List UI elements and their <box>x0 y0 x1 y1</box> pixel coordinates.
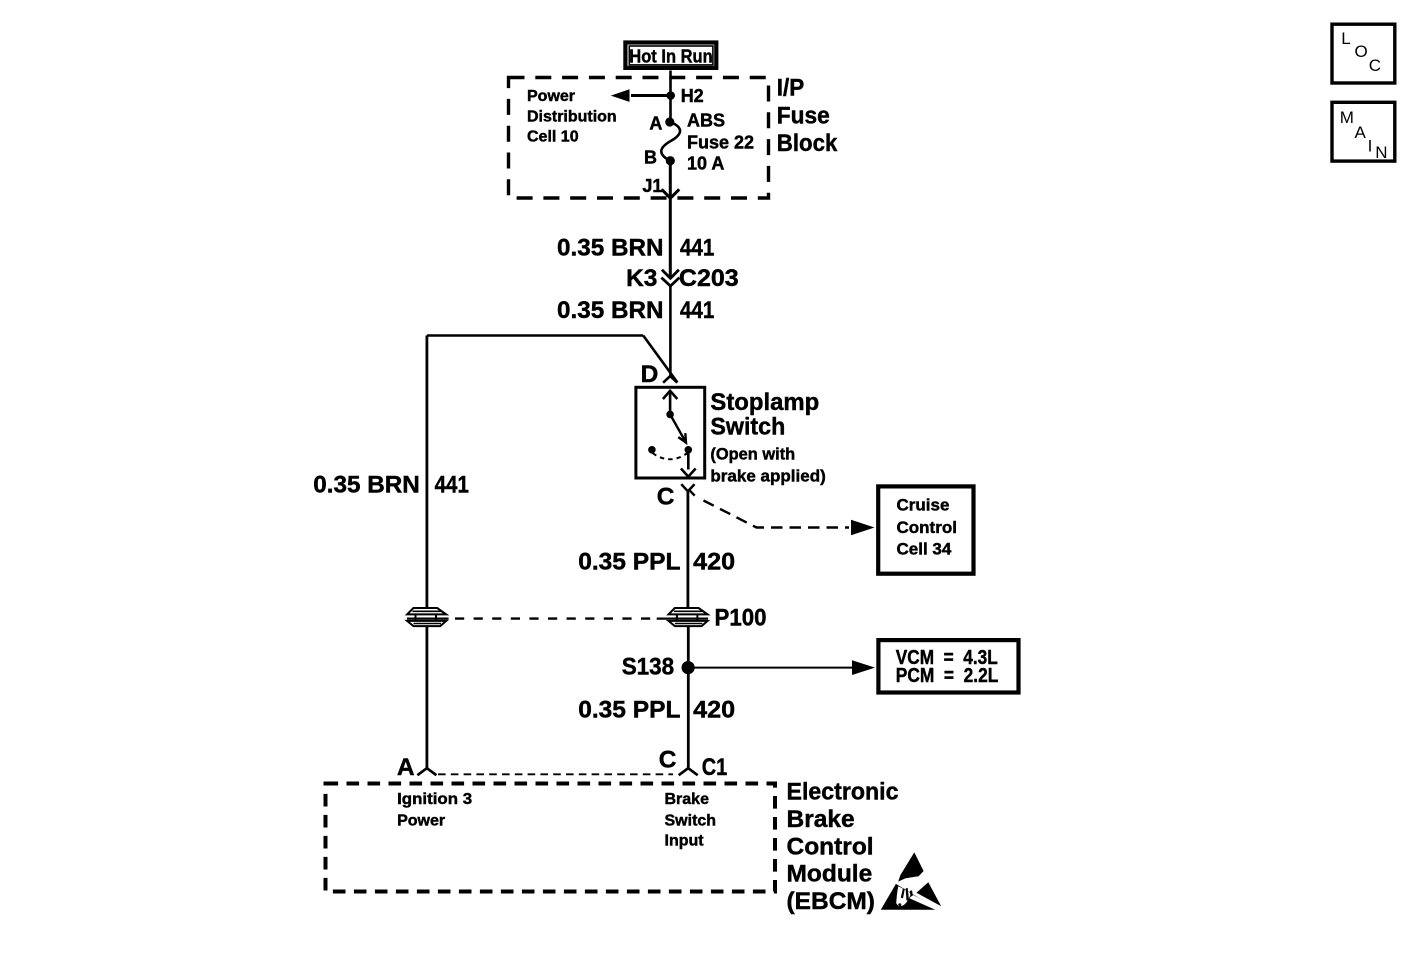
svg-text:A: A <box>649 113 662 133</box>
svg-text:I/P: I/P <box>777 74 805 101</box>
svg-text:0.35 BRN: 0.35 BRN <box>557 297 664 324</box>
svg-text:S138: S138 <box>622 654 675 681</box>
svg-text:P100: P100 <box>715 605 767 632</box>
svg-text:Switch: Switch <box>710 414 785 441</box>
svg-text:PCM = 2.2L: PCM = 2.2L <box>896 665 999 687</box>
svg-text:Module: Module <box>787 861 873 888</box>
svg-text:Power: Power <box>397 812 445 829</box>
svg-text:N: N <box>1375 143 1387 162</box>
svg-text:D: D <box>641 361 659 388</box>
svg-text:Fuse 22: Fuse 22 <box>687 133 754 153</box>
svg-text:441: 441 <box>435 471 469 498</box>
svg-text:(EBCM): (EBCM) <box>787 888 875 915</box>
svg-text:Block: Block <box>777 130 838 157</box>
svg-text:Switch: Switch <box>665 812 717 829</box>
svg-text:Cell 34: Cell 34 <box>897 540 952 559</box>
svg-text:C: C <box>657 483 675 510</box>
svg-text:0.35 PPL: 0.35 PPL <box>578 696 680 723</box>
svg-text:Electronic: Electronic <box>787 779 899 806</box>
svg-text:ABS: ABS <box>687 111 725 131</box>
svg-text:0.35 PPL: 0.35 PPL <box>578 548 680 575</box>
svg-text:K3: K3 <box>626 265 657 292</box>
svg-text:O: O <box>1355 42 1368 61</box>
svg-text:A: A <box>397 754 415 781</box>
svg-text:Power: Power <box>527 88 575 105</box>
svg-text:Input: Input <box>665 833 705 850</box>
svg-text:I: I <box>1368 137 1373 156</box>
svg-text:Cruise: Cruise <box>897 496 950 515</box>
svg-text:441: 441 <box>680 297 714 324</box>
svg-text:brake applied): brake applied) <box>710 466 825 485</box>
svg-text:M: M <box>1340 108 1354 127</box>
svg-text:L: L <box>1341 29 1350 48</box>
svg-text:420: 420 <box>693 696 735 723</box>
svg-text:C: C <box>659 747 677 774</box>
svg-text:Hot In Run: Hot In Run <box>629 46 712 66</box>
svg-text:Control: Control <box>897 518 957 537</box>
svg-text:H2: H2 <box>681 86 704 106</box>
svg-text:B: B <box>644 148 657 168</box>
svg-text:Cell 10: Cell 10 <box>527 129 579 146</box>
svg-text:C: C <box>1369 56 1381 75</box>
svg-text:10 A: 10 A <box>687 154 724 174</box>
svg-text:Brake: Brake <box>787 806 855 833</box>
svg-text:Stoplamp: Stoplamp <box>710 389 819 416</box>
svg-text:A: A <box>1355 123 1367 142</box>
svg-text:Fuse: Fuse <box>777 103 830 130</box>
svg-text:441: 441 <box>680 234 714 261</box>
svg-text:C203: C203 <box>679 265 739 292</box>
svg-text:J1: J1 <box>642 176 662 196</box>
svg-text:Brake: Brake <box>665 791 710 808</box>
svg-text:420: 420 <box>693 548 735 575</box>
svg-text:Distribution: Distribution <box>527 108 617 125</box>
svg-text:(Open with: (Open with <box>710 444 795 463</box>
svg-text:Control: Control <box>787 833 874 860</box>
svg-text:0.35 BRN: 0.35 BRN <box>557 234 664 261</box>
svg-text:0.35 BRN: 0.35 BRN <box>313 471 420 498</box>
svg-text:C1: C1 <box>702 754 728 781</box>
svg-text:Ignition 3: Ignition 3 <box>397 791 472 808</box>
